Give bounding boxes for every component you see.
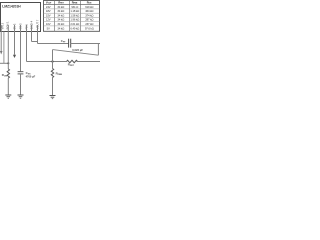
node FB junction dot	[51, 60, 53, 62]
svg-text:4700 pF: 4700 pF	[26, 74, 36, 78]
wire CIN branch vertical	[3, 32, 5, 64]
wire pin7 VOUT vertical	[37, 25, 39, 44]
wire FB trace to right edge	[77, 61, 101, 63]
wire pin3 EN vertical	[14, 25, 16, 55]
svg-text:237 kΩ: 237 kΩ	[85, 22, 93, 26]
capacitor CSS plate bottom	[18, 73, 24, 75]
svg-text:374 kΩ: 374 kΩ	[85, 13, 93, 17]
svg-text:287 kΩ: 287 kΩ	[85, 18, 93, 22]
node VIN junction dot	[7, 62, 9, 64]
capacitor CSS plate top	[18, 71, 24, 73]
svg-text:10V: 10V	[46, 22, 51, 26]
wire pin1 VIN vertical	[0, 25, 2, 51]
svg-text:RON: RON	[2, 73, 8, 78]
wire pin4 SS vertical	[20, 25, 22, 71]
table column 2 values	[57, 5, 64, 30]
svg-text:464 kΩ: 464 kΩ	[85, 9, 93, 13]
wire VIN input from left edge	[0, 62, 8, 64]
svg-text:RFBT: RFBT	[68, 62, 75, 67]
table row line 5	[44, 25, 100, 27]
ground G1 bar	[5, 94, 11, 96]
table row line 1	[44, 8, 100, 10]
ground G2 bar	[18, 94, 24, 96]
wire VOUT rail right segment	[71, 43, 100, 45]
ground G1 arrow	[7, 96, 11, 98]
table outer border	[44, 1, 100, 32]
wire loop horizontal	[53, 50, 99, 56]
svg-text:RFBB: RFBB	[56, 71, 63, 76]
wire RFBB lower vertical	[52, 78, 54, 96]
capacitor CFF plate left	[68, 39, 70, 48]
capacitor CFF plate right	[70, 39, 72, 48]
svg-text:LMZ14201H: LMZ14201H	[2, 5, 21, 9]
table column line 2	[69, 1, 71, 32]
ground pin1 small arrow	[0, 51, 2, 55]
wire pin2 RON vertical lower	[7, 78, 9, 95]
svg-text:34 kΩ: 34 kΩ	[57, 5, 64, 9]
svg-text:97.6 kΩ: 97.6 kΩ	[85, 26, 94, 30]
table column 4 values	[85, 5, 94, 30]
wire pin6 to pin7 jog	[32, 41, 38, 43]
table column 3 values	[70, 5, 79, 30]
svg-text:12V: 12V	[46, 18, 51, 22]
svg-text:619 kΩ: 619 kΩ	[85, 5, 93, 9]
table column line 1	[54, 1, 56, 32]
svg-text:1.96 kΩ: 1.96 kΩ	[70, 18, 79, 22]
table row line 4	[44, 21, 100, 23]
resistor RON (vertical zigzag)	[7, 69, 9, 78]
resistor RFBT (horizontal zigzag)	[67, 60, 78, 62]
svg-text:24V: 24V	[46, 5, 51, 9]
table column line 3	[80, 1, 82, 32]
table row line 2	[44, 12, 100, 14]
svg-text:0.022 µF: 0.022 µF	[72, 48, 83, 52]
svg-text:34 kΩ: 34 kΩ	[57, 18, 64, 22]
table header text	[46, 1, 92, 5]
svg-text:CFF: CFF	[61, 39, 66, 44]
IC U1 LMZ14201H module box	[1, 3, 41, 32]
svg-text:RON 1: RON 1	[6, 21, 10, 29]
svg-text:34 kΩ: 34 kΩ	[57, 9, 64, 13]
svg-text:5V: 5V	[47, 26, 50, 30]
ground G3 bar	[50, 95, 56, 97]
wire VOUT rail left segment	[38, 43, 69, 45]
svg-text:2.61 kΩ: 2.61 kΩ	[70, 22, 79, 26]
wire pin6 FB vertical	[31, 25, 33, 42]
wire FB node vertical	[52, 50, 54, 69]
wire loop right vertical	[97, 44, 99, 56]
table column 1 values	[46, 5, 51, 30]
wire FB trace horizontal	[27, 61, 67, 63]
resistor RFBB (vertical zigzag)	[51, 69, 53, 78]
wire pin2 RON vertical upper	[7, 25, 9, 69]
svg-text:34 kΩ: 34 kΩ	[57, 13, 64, 17]
ground G2 arrow	[19, 96, 23, 98]
table header separator	[44, 4, 100, 6]
svg-text:34 kΩ: 34 kΩ	[57, 26, 64, 30]
table row line 3	[44, 16, 100, 18]
ground pin3 arrow symbol	[13, 55, 16, 58]
svg-text:34 kΩ: 34 kΩ	[57, 22, 64, 26]
wire pin5 FB vertical	[26, 25, 28, 62]
ground G3 arrow	[51, 96, 55, 98]
svg-text:931 Ω: 931 Ω	[71, 5, 78, 9]
svg-text:1.58 kΩ: 1.58 kΩ	[70, 13, 79, 17]
svg-text:15V: 15V	[46, 13, 51, 17]
svg-text:6.49 kΩ: 6.49 kΩ	[70, 26, 79, 30]
svg-text:1.18 kΩ: 1.18 kΩ	[70, 9, 79, 13]
svg-text:18V: 18V	[46, 9, 51, 13]
wire pin4 SS vertical lower	[20, 74, 22, 95]
